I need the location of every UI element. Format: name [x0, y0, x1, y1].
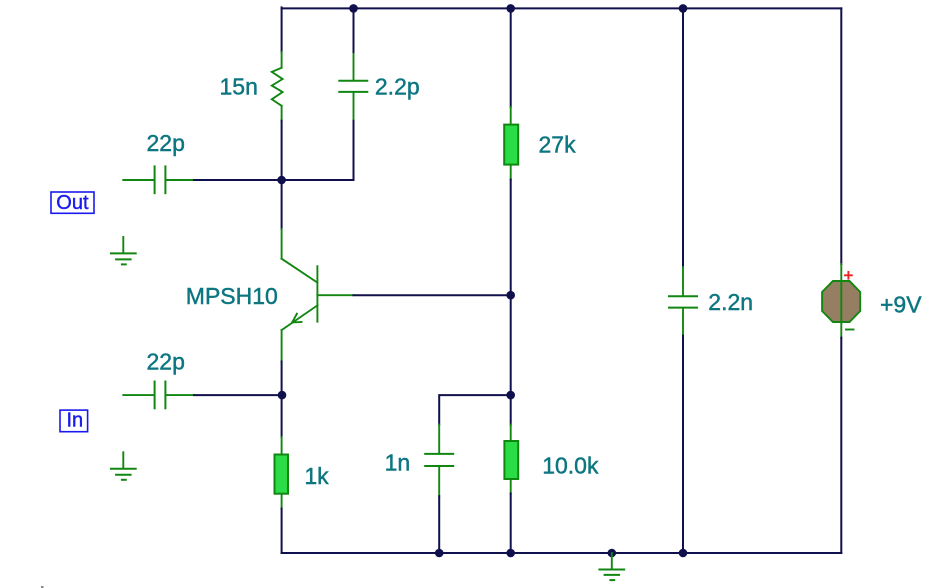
label In	[60, 410, 88, 432]
capacitor C3 22p (input coupling)	[123, 382, 194, 409]
resistor R3 10.0k	[504, 425, 518, 494]
battery V1	[822, 264, 860, 338]
svg-text:+9V: +9V	[880, 292, 922, 318]
wire base node down	[510, 295, 512, 395]
svg-text:1k: 1k	[304, 463, 329, 489]
wire battery to bottom rail	[840, 338, 842, 553]
wire 27k to base node	[510, 180, 512, 296]
wire top rail	[282, 7, 842, 9]
wire 2.2p bottom to Out node	[282, 121, 354, 180]
capacitor C4 1n	[425, 425, 453, 497]
svg-text:In: In	[67, 410, 84, 432]
node bottom rail dot x439	[435, 549, 444, 558]
wire In node down to 1k	[281, 395, 283, 437]
capacitor C1 22p (output coupling)	[123, 166, 194, 193]
ground (bottom center)	[599, 553, 624, 580]
wire 2.2n rail top	[682, 8, 684, 267]
wire 22p to Out node	[194, 179, 282, 181]
wire battery rail top	[840, 8, 842, 264]
wire 27k rail top	[510, 8, 512, 107]
node top rail dot x511	[506, 4, 515, 13]
svg-text:22p: 22p	[147, 349, 185, 375]
wire left rail upper (top rail to inductor)	[281, 7, 283, 52]
wire inductor bottom to Out node	[281, 121, 283, 180]
wire Out node down to collector	[281, 180, 283, 229]
capacitor C5 2.2n	[669, 267, 697, 336]
stray mark bottom left	[41, 586, 44, 588]
svg-text:27k: 27k	[539, 132, 577, 158]
ground (near Out)	[111, 237, 136, 265]
svg-text:MPSH10: MPSH10	[186, 283, 278, 309]
node top rail dot x353	[349, 4, 358, 13]
wire 1k to bottom rail	[281, 509, 283, 554]
svg-text:22p: 22p	[147, 130, 185, 156]
node In junction dot	[278, 391, 287, 400]
wire bottom rail	[282, 552, 842, 554]
node Out junction dot	[277, 176, 286, 185]
wire 22p to In node	[194, 394, 282, 396]
svg-text:2.2p: 2.2p	[375, 74, 420, 100]
wire 2.2n to bottom rail	[682, 336, 684, 553]
label Out	[51, 192, 94, 213]
capacitor C2 2.2p	[339, 52, 367, 121]
node bottom rail dot x612	[608, 549, 617, 558]
svg-text:15n: 15n	[220, 74, 258, 100]
resistor R2 1k	[275, 437, 289, 509]
svg-text:Out: Out	[56, 192, 89, 214]
node divider junction dot	[506, 391, 515, 400]
node bottom rail dot x511	[506, 549, 515, 558]
svg-text:2.2n: 2.2n	[708, 289, 753, 315]
node top rail dot x683	[679, 4, 688, 13]
svg-text:1n: 1n	[385, 450, 411, 476]
wire divider node to 10.0k	[510, 395, 512, 425]
inductor L1 15n	[272, 52, 283, 121]
node bottom rail dot x683	[679, 549, 688, 558]
ground (near In)	[111, 452, 136, 480]
resistor R1 27k	[504, 107, 518, 180]
wire 2.2p top to rail	[353, 8, 355, 52]
wire base to divider node	[354, 294, 511, 296]
wire 10.0k to bottom rail	[510, 494, 512, 554]
wire emitter down to In node	[281, 362, 283, 396]
wire divider node to 1n branch	[439, 395, 511, 425]
transistor Q1 MPSH10	[282, 229, 354, 362]
wire 1n to bottom rail	[438, 496, 440, 553]
svg-text:10.0k: 10.0k	[542, 452, 599, 478]
node base junction dot	[506, 291, 515, 300]
